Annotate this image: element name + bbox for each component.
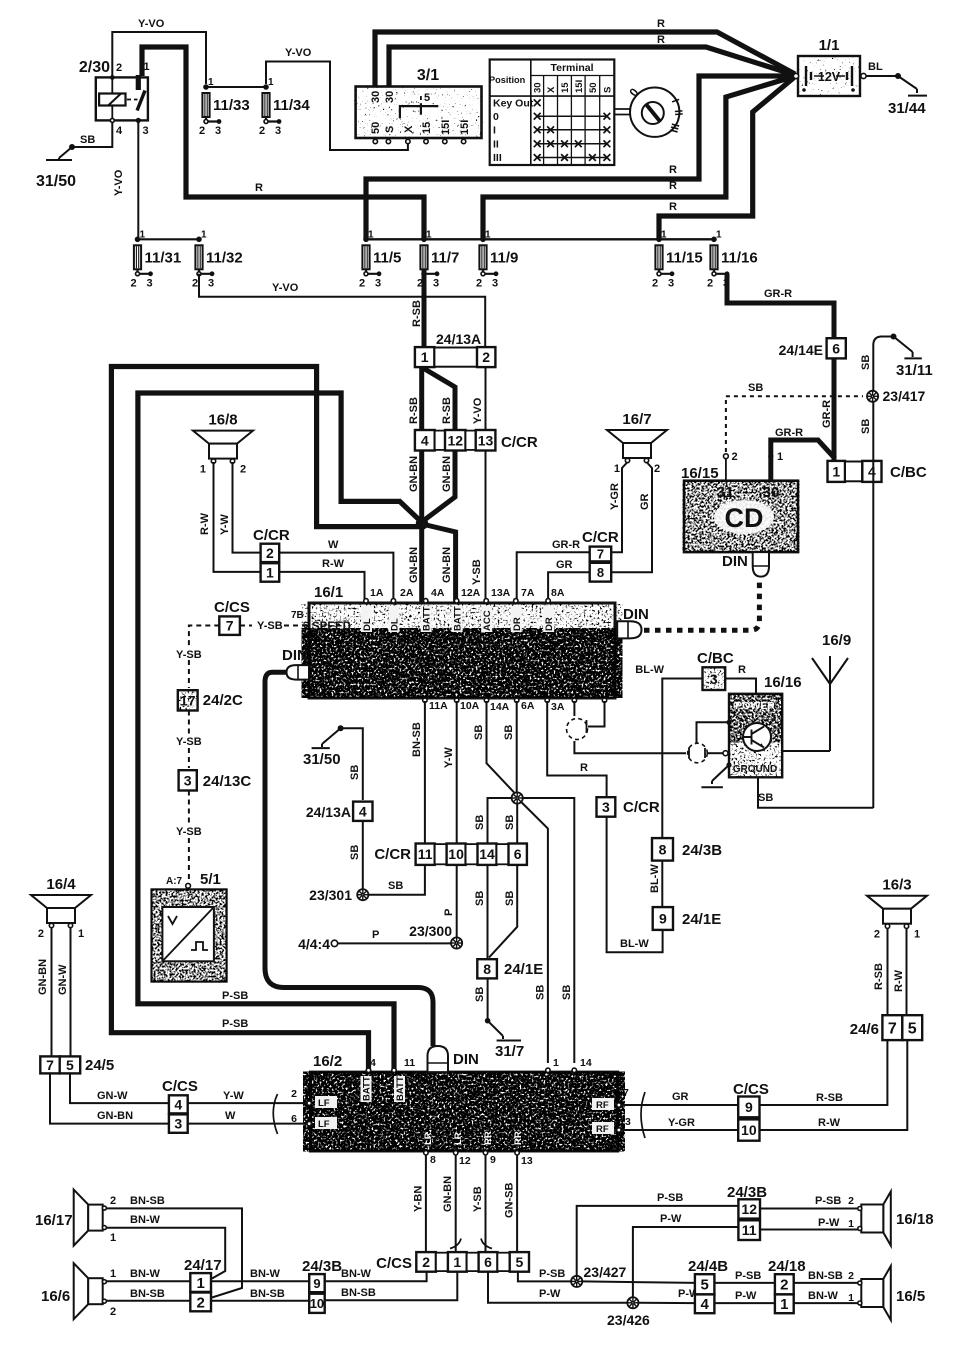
wire R 11/15 riser to battery bbox=[659, 78, 794, 240]
svg-text:4: 4 bbox=[174, 1096, 182, 1112]
svg-text:4: 4 bbox=[700, 1296, 709, 1313]
svg-text:2: 2 bbox=[652, 277, 658, 289]
wire Y-GR C/CR-7 to 16/7 pin1 bbox=[611, 462, 627, 552]
wire SB 16/1 14A to splice bbox=[487, 701, 517, 795]
svg-text:RF: RF bbox=[596, 1100, 609, 1111]
wire BL-W 24/3B-8 to 24/1E-9 bbox=[661, 861, 663, 907]
svg-text:C/CS: C/CS bbox=[376, 1255, 412, 1272]
wire R 3/1 pin30a to battery bbox=[375, 32, 795, 88]
wire SB dashed 23/417 to CD pin2 bbox=[725, 396, 727, 452]
wire R 16/1 3A to C/CR-3 bbox=[547, 701, 606, 796]
svg-text:2: 2 bbox=[259, 125, 265, 137]
svg-text:2/30: 2/30 bbox=[79, 59, 110, 76]
svg-text:2: 2 bbox=[848, 1270, 854, 1282]
svg-text:8: 8 bbox=[597, 565, 604, 580]
power stage 16/16 bbox=[726, 674, 801, 777]
svg-text:2: 2 bbox=[422, 1254, 430, 1270]
wire Y-VO relay pin2 to fuse 11/33 bbox=[112, 32, 206, 84]
svg-text:Y-SB: Y-SB bbox=[176, 826, 202, 838]
connector 24/18 2-1 bbox=[768, 1258, 806, 1313]
svg-text:R: R bbox=[669, 164, 677, 176]
fuse 11/31 bbox=[131, 229, 182, 289]
svg-text:R: R bbox=[657, 18, 665, 30]
svg-text:R-W: R-W bbox=[199, 512, 211, 535]
svg-text:Terminal: Terminal bbox=[551, 62, 594, 74]
wire R-SB 24/6-7 to C/CS-9 bbox=[760, 1040, 888, 1105]
svg-text:III: III bbox=[493, 152, 502, 164]
wire R-W C/CR-1 to 16/1 pin 1A bbox=[279, 572, 364, 599]
fuse 11/9 bbox=[476, 229, 518, 289]
wire stub 16/16 upper terminal bbox=[697, 722, 730, 744]
svg-text:Y-VO: Y-VO bbox=[272, 282, 299, 294]
svg-text:GN-BN: GN-BN bbox=[408, 456, 420, 492]
svg-text:1: 1 bbox=[914, 929, 920, 941]
svg-text:BN-W: BN-W bbox=[130, 1268, 161, 1280]
connector 24/13A bbox=[415, 331, 496, 367]
connector 24/3B 12-11 bbox=[727, 1184, 767, 1240]
wire SB splice to C/CR-14 bbox=[488, 798, 512, 844]
svg-text:8: 8 bbox=[483, 961, 491, 977]
wire bus 11/5 to 11/16 bbox=[366, 238, 714, 240]
svg-text:2: 2 bbox=[192, 277, 198, 289]
wire GN-BN C/CR-12 to junction bbox=[423, 451, 455, 522]
wire Y-BN 16/2 pin8 to C/CS-2 bbox=[425, 1155, 427, 1253]
svg-text:2: 2 bbox=[110, 1306, 116, 1318]
svg-text:9: 9 bbox=[659, 911, 667, 927]
speaker 16/17 bbox=[35, 1190, 116, 1246]
svg-text:GN-W: GN-W bbox=[97, 1090, 128, 1102]
speaker 16/18 bbox=[858, 1192, 934, 1246]
svg-text:2: 2 bbox=[110, 1195, 116, 1207]
svg-text:BN-W: BN-W bbox=[130, 1214, 161, 1226]
svg-text:2: 2 bbox=[199, 125, 205, 137]
svg-text:Y-BN: Y-BN bbox=[413, 1186, 425, 1212]
ignition switch 3/1 bbox=[356, 67, 482, 144]
svg-text:1: 1 bbox=[208, 77, 214, 88]
wire SB ground 31/11 column through 23/417 and C/BC-4 bbox=[873, 337, 891, 809]
svg-text:16/16: 16/16 bbox=[764, 674, 802, 691]
svg-text:SB: SB bbox=[561, 985, 573, 1000]
svg-text:5: 5 bbox=[700, 1277, 708, 1294]
wire DIN cable 16/1 to 16/2 bbox=[265, 672, 433, 1046]
fuse 11/7 bbox=[417, 229, 459, 289]
svg-text:15: 15 bbox=[560, 82, 571, 93]
svg-text:Y-VO: Y-VO bbox=[285, 47, 312, 59]
svg-text:11A: 11A bbox=[429, 700, 448, 712]
connector C/CR 3 bbox=[597, 797, 660, 817]
svg-text:24/5: 24/5 bbox=[85, 1057, 114, 1074]
wire P-SB 24/4B-5 to 24/18-2 bbox=[714, 1282, 775, 1284]
svg-text:1: 1 bbox=[266, 564, 274, 580]
svg-text:6: 6 bbox=[514, 846, 522, 862]
wire Y-W C/CS-4 to 16/2 pin2 bbox=[188, 1102, 307, 1104]
svg-text:GR-R: GR-R bbox=[775, 427, 803, 439]
svg-text:5: 5 bbox=[424, 92, 430, 104]
svg-text:1: 1 bbox=[201, 229, 207, 240]
svg-text:24/6: 24/6 bbox=[850, 1021, 879, 1038]
DIN connector 16/2 bbox=[428, 1046, 479, 1072]
DIN connector CD 16/15 bbox=[722, 552, 769, 577]
svg-text:10: 10 bbox=[310, 1296, 324, 1311]
connector C/CS 7 bbox=[214, 599, 250, 635]
svg-text:3: 3 bbox=[492, 277, 498, 289]
svg-text:13: 13 bbox=[521, 1155, 533, 1167]
svg-text:RR: RR bbox=[513, 1131, 524, 1145]
svg-text:15I: 15I bbox=[459, 120, 471, 135]
svg-text:P-SB: P-SB bbox=[222, 1018, 248, 1030]
svg-text:7: 7 bbox=[597, 547, 604, 562]
splice 23/300 bbox=[451, 937, 462, 948]
svg-text:SB: SB bbox=[474, 891, 486, 906]
svg-text:11/34: 11/34 bbox=[273, 97, 310, 114]
wire Y-GR 16/2 pin3 to C/CS-10 bbox=[621, 1129, 738, 1131]
svg-text:6: 6 bbox=[303, 620, 308, 630]
svg-text:BN-W: BN-W bbox=[250, 1268, 281, 1280]
ground stub 16/16 bbox=[701, 765, 729, 787]
svg-text:LF: LF bbox=[318, 1098, 330, 1109]
svg-text:Key Out: Key Out bbox=[493, 98, 534, 110]
wire R-SB 16/3 pin2 to 24/6-7 bbox=[887, 929, 889, 1015]
svg-text:R: R bbox=[669, 180, 677, 192]
svg-text:Y-W: Y-W bbox=[219, 514, 231, 535]
svg-text:6A: 6A bbox=[521, 700, 535, 712]
connector C/CR 11-10-14-6 bbox=[374, 844, 527, 865]
svg-text:4: 4 bbox=[868, 463, 876, 479]
svg-text:SB: SB bbox=[535, 985, 547, 1000]
svg-text:11/16: 11/16 bbox=[721, 249, 758, 266]
svg-text:4/4:4: 4/4:4 bbox=[298, 936, 330, 952]
svg-text:BN-SB: BN-SB bbox=[250, 1288, 285, 1300]
svg-text:2: 2 bbox=[266, 545, 274, 561]
svg-text:11/32: 11/32 bbox=[206, 249, 243, 266]
svg-text:2A: 2A bbox=[400, 587, 414, 599]
DIN connector 16/1 left bbox=[282, 647, 309, 680]
svg-text:31: 31 bbox=[717, 484, 734, 501]
svg-text:3: 3 bbox=[143, 125, 149, 137]
connector C/CR 7-8 bbox=[582, 529, 619, 582]
svg-text:30: 30 bbox=[533, 82, 544, 93]
svg-text:16/5: 16/5 bbox=[896, 1288, 925, 1305]
svg-text:2: 2 bbox=[359, 277, 365, 289]
connector 24/14E 6 bbox=[779, 338, 846, 358]
wire BN-SB 24/3B-10 to C/CS-1 bbox=[325, 1272, 458, 1301]
wire GN-BN C/CR-4 to junction bbox=[419, 451, 424, 605]
svg-text:Y-SB: Y-SB bbox=[257, 620, 283, 632]
wire Y-VO 11/32 to 24/13A pin2 bbox=[199, 274, 485, 348]
wire W C/CS-3 to 16/2 pin6 bbox=[188, 1123, 307, 1125]
svg-text:15I: 15I bbox=[574, 80, 585, 93]
wire SB splice to 16/2 pin1 bbox=[521, 802, 548, 1063]
svg-text:Y-SB: Y-SB bbox=[471, 559, 483, 585]
svg-text:BL-W: BL-W bbox=[635, 664, 664, 676]
svg-text:R-W: R-W bbox=[818, 1117, 841, 1129]
svg-text:3: 3 bbox=[208, 277, 214, 289]
svg-text:BN-SB: BN-SB bbox=[411, 722, 423, 757]
svg-text:24/4B: 24/4B bbox=[688, 1258, 728, 1275]
node SB splice bbox=[512, 792, 523, 803]
svg-text:30: 30 bbox=[763, 484, 780, 501]
svg-text:GR-R: GR-R bbox=[764, 288, 792, 300]
wire BN-SB 16/6 pin2 to 24/17-2 bbox=[107, 1300, 191, 1302]
connector C/CS 4-3 bbox=[162, 1078, 198, 1133]
connector 24/17 1-2 bbox=[184, 1257, 222, 1311]
svg-text:W: W bbox=[225, 1110, 236, 1122]
ground 31/50 top bbox=[36, 144, 76, 190]
svg-text:14: 14 bbox=[479, 846, 495, 862]
svg-text:SB: SB bbox=[80, 134, 95, 146]
svg-text:23/417: 23/417 bbox=[883, 388, 926, 404]
wire SB 16/1 6A to splice bbox=[516, 701, 518, 793]
wire bus fuse row pins 1 bbox=[138, 238, 200, 240]
svg-text:24/13A: 24/13A bbox=[306, 804, 351, 820]
svg-text:R-SB: R-SB bbox=[411, 300, 423, 327]
svg-text:24/1E: 24/1E bbox=[504, 961, 543, 978]
svg-text:7B: 7B bbox=[291, 610, 304, 621]
svg-text:1: 1 bbox=[200, 464, 206, 476]
svg-text:16/18: 16/18 bbox=[896, 1211, 934, 1228]
svg-text:24/3B: 24/3B bbox=[302, 1258, 342, 1275]
svg-text:C/CR: C/CR bbox=[253, 527, 290, 544]
svg-text:DIN: DIN bbox=[282, 647, 308, 664]
svg-text:SB: SB bbox=[474, 815, 486, 830]
wire GR-R 16/1 7A to C/CR-7 bbox=[517, 552, 590, 599]
wire SB 16/16 to right column bbox=[758, 777, 873, 807]
wire Y-W 16/1 10A to 23/300 bbox=[456, 701, 458, 938]
svg-text:24/3B: 24/3B bbox=[682, 842, 722, 859]
svg-text:1: 1 bbox=[777, 451, 783, 463]
svg-text:R: R bbox=[669, 201, 677, 213]
connector 24/1E 8 bbox=[477, 959, 543, 978]
svg-text:SB: SB bbox=[473, 725, 485, 740]
svg-text:LR: LR bbox=[453, 1132, 464, 1145]
svg-text:C/CS: C/CS bbox=[162, 1078, 198, 1095]
svg-text:X: X bbox=[546, 86, 557, 93]
svg-text:R-W: R-W bbox=[893, 969, 905, 992]
svg-text:BATT: BATT bbox=[395, 1076, 406, 1101]
svg-text:5: 5 bbox=[908, 1020, 917, 1037]
svg-text:GN-BN: GN-BN bbox=[441, 547, 453, 583]
wire Y-SB dashed 24/2C to 24/13C bbox=[188, 711, 190, 735]
wire BN-W 24/18-1 to 16/5 pin1 bbox=[794, 1302, 858, 1304]
svg-text:11/5: 11/5 bbox=[373, 249, 401, 266]
svg-text:BN-SB: BN-SB bbox=[341, 1287, 376, 1299]
svg-text:BATT: BATT bbox=[362, 1076, 373, 1101]
svg-text:SB: SB bbox=[504, 815, 516, 830]
antenna 16/9 bbox=[812, 632, 851, 751]
wire GN-SB 16/2 pin13 to C/CS-5 bbox=[516, 1155, 518, 1253]
wire SB splice through C/CR-6 bbox=[516, 804, 518, 844]
svg-text:1: 1 bbox=[368, 229, 374, 240]
svg-text:P-W: P-W bbox=[660, 1213, 682, 1225]
relay 2/30 bbox=[79, 59, 150, 137]
wire R-W 16/3 pin1 to 24/6-5 bbox=[906, 929, 908, 1015]
svg-text:SB: SB bbox=[388, 880, 403, 892]
svg-text:12: 12 bbox=[741, 1201, 757, 1217]
svg-text:2: 2 bbox=[131, 277, 137, 289]
svg-text:P: P bbox=[372, 929, 379, 941]
svg-text:CD: CD bbox=[725, 503, 764, 533]
wire P-W 23/426 to 24/4B-4 bbox=[639, 1302, 695, 1304]
svg-text:16/2: 16/2 bbox=[313, 1053, 342, 1070]
svg-text:4A: 4A bbox=[431, 587, 445, 599]
svg-text:BL-W: BL-W bbox=[649, 864, 661, 893]
svg-text:1: 1 bbox=[78, 928, 84, 940]
svg-text:BL-W: BL-W bbox=[620, 938, 649, 950]
svg-text:Y-SB: Y-SB bbox=[176, 736, 202, 748]
svg-text:RR: RR bbox=[483, 1131, 494, 1145]
svg-text:DR: DR bbox=[512, 617, 523, 631]
svg-text:C/CR: C/CR bbox=[623, 799, 660, 816]
wire Y-SB dashed C/CS-7 to 24/2C bbox=[189, 626, 219, 649]
svg-text:1: 1 bbox=[110, 1268, 116, 1280]
svg-text:7: 7 bbox=[888, 1020, 897, 1037]
svg-text:1: 1 bbox=[110, 1232, 116, 1244]
svg-text:0: 0 bbox=[493, 111, 499, 123]
battery 1/1 bbox=[793, 37, 866, 96]
svg-text:12: 12 bbox=[447, 432, 463, 448]
svg-text:Y-GR: Y-GR bbox=[668, 1117, 695, 1129]
svg-text:7A: 7A bbox=[521, 587, 535, 599]
svg-text:11: 11 bbox=[404, 1057, 415, 1069]
svg-text:GR: GR bbox=[672, 1091, 689, 1103]
svg-text:12A: 12A bbox=[461, 587, 481, 599]
svg-text:GN-SB: GN-SB bbox=[504, 1183, 516, 1219]
svg-text:16/1: 16/1 bbox=[314, 584, 343, 601]
svg-text:DR: DR bbox=[544, 617, 555, 631]
svg-text:1: 1 bbox=[485, 229, 491, 240]
svg-text:16/17: 16/17 bbox=[35, 1212, 73, 1229]
svg-text:DIN: DIN bbox=[722, 553, 748, 570]
wire R 11/9 riser to battery bbox=[483, 77, 794, 240]
svg-text:GN-BN: GN-BN bbox=[442, 1176, 454, 1212]
svg-text:1: 1 bbox=[553, 1057, 559, 1069]
svg-text:3/1: 3/1 bbox=[417, 67, 439, 84]
wire R 3/1 pin30b to battery bbox=[389, 47, 795, 88]
svg-text:50: 50 bbox=[588, 82, 599, 93]
svg-text:9: 9 bbox=[313, 1276, 320, 1291]
DIN connector 16/1 right bbox=[617, 606, 649, 638]
svg-text:1: 1 bbox=[832, 463, 840, 479]
svg-text:1: 1 bbox=[140, 229, 146, 240]
svg-text:11: 11 bbox=[418, 846, 433, 862]
svg-text:SB: SB bbox=[860, 419, 872, 434]
svg-text:3: 3 bbox=[275, 125, 281, 137]
wire GR 16/1 8A to C/CR-8 bbox=[548, 572, 590, 599]
speaker 16/4 bbox=[31, 876, 91, 940]
svg-text:24/13A: 24/13A bbox=[436, 331, 481, 347]
fuse 11/15 bbox=[652, 229, 703, 289]
svg-text:4: 4 bbox=[421, 432, 429, 448]
connector 24/13A 4 bbox=[306, 802, 373, 821]
splice 23/417 bbox=[867, 391, 878, 402]
wire Y-SB dashed 24/13C to 5/1 bbox=[188, 791, 190, 825]
connector 24/5 7-5 bbox=[40, 1056, 114, 1074]
svg-text:LF: LF bbox=[318, 1119, 330, 1130]
svg-text:SB: SB bbox=[748, 382, 763, 394]
svg-text:2: 2 bbox=[291, 1088, 297, 1100]
svg-text:15: 15 bbox=[421, 122, 433, 134]
svg-text:23/427: 23/427 bbox=[584, 1264, 627, 1280]
svg-text:14: 14 bbox=[580, 1057, 592, 1069]
svg-text:4: 4 bbox=[116, 125, 123, 137]
svg-text:24/13C: 24/13C bbox=[203, 773, 252, 790]
svg-text:BN-W: BN-W bbox=[341, 1268, 372, 1280]
svg-text:BN-SB: BN-SB bbox=[130, 1288, 165, 1300]
wire P-W 23/426 to 24/3B-11 bbox=[633, 1227, 739, 1297]
wire R-SB 24/13A-1 to C/CR-4 bbox=[419, 368, 424, 431]
svg-text:1: 1 bbox=[196, 1275, 204, 1292]
svg-text:10: 10 bbox=[448, 846, 464, 862]
wire link table to key bbox=[614, 109, 630, 115]
ground 31/7 bbox=[485, 1018, 524, 1060]
svg-text:R: R bbox=[255, 182, 263, 194]
svg-text:P-W: P-W bbox=[539, 1288, 561, 1300]
speaker 16/7 bbox=[607, 411, 667, 475]
speaker 16/5 bbox=[858, 1266, 925, 1320]
svg-text:5: 5 bbox=[515, 1254, 523, 1270]
wire BN-SB 24/17-2 to 24/3B-10 bbox=[211, 1300, 309, 1302]
svg-text:3: 3 bbox=[710, 671, 718, 687]
wire Y-SB 16/2 pin9 to C/CS-6 bbox=[485, 1155, 487, 1253]
svg-text:4: 4 bbox=[359, 803, 367, 819]
svg-text:17: 17 bbox=[180, 693, 196, 709]
CD player 16/15 bbox=[681, 465, 798, 552]
wire GR-R 24/14E to C/BC-1 bbox=[832, 358, 837, 460]
svg-text:S: S bbox=[602, 87, 613, 93]
twisted pair marks above bottom C/CS bbox=[450, 1239, 461, 1249]
wire R relay pin1 loop bbox=[142, 47, 424, 239]
svg-text:7: 7 bbox=[623, 1087, 629, 1099]
wire GR 16/2 pin7 to C/CS-9 bbox=[621, 1104, 738, 1106]
svg-text:1: 1 bbox=[614, 463, 620, 475]
svg-text:8: 8 bbox=[659, 841, 667, 857]
svg-text:P-SB: P-SB bbox=[222, 990, 248, 1002]
wire R-W 24/6-5 to C/CS-10 bbox=[760, 1040, 908, 1130]
svg-text:2: 2 bbox=[732, 451, 738, 463]
amplifier unit 16/2 bbox=[291, 1053, 631, 1167]
svg-text:P-W: P-W bbox=[735, 1290, 757, 1302]
wire SB 24/13A-4 to 23/301 bbox=[362, 821, 364, 889]
svg-text:P-SB: P-SB bbox=[735, 1270, 761, 1282]
svg-text:6: 6 bbox=[832, 340, 840, 356]
wire GN-W 24/5-5 to C/CS-4 bbox=[70, 1073, 169, 1103]
svg-text:GR: GR bbox=[556, 559, 573, 571]
speaker 16/8 bbox=[193, 412, 253, 476]
svg-text:11/9: 11/9 bbox=[490, 249, 518, 266]
svg-text:30: 30 bbox=[384, 91, 396, 103]
svg-text:24/17: 24/17 bbox=[184, 1257, 222, 1274]
svg-text:30: 30 bbox=[370, 91, 382, 103]
svg-text:1: 1 bbox=[421, 349, 429, 365]
svg-text:24/14E: 24/14E bbox=[779, 342, 823, 358]
svg-text:16/9: 16/9 bbox=[822, 632, 851, 649]
fuse 11/34 bbox=[259, 77, 310, 137]
wire P-SB loop 16/2 pin4 outer bbox=[111, 367, 424, 1072]
svg-text:10: 10 bbox=[741, 1122, 757, 1138]
svg-text:R-SB: R-SB bbox=[408, 397, 420, 424]
svg-text:13A: 13A bbox=[491, 587, 511, 599]
svg-text:C/BC: C/BC bbox=[697, 650, 734, 667]
svg-text:R-W: R-W bbox=[322, 558, 345, 570]
wire BL battery to 31/44 bbox=[866, 75, 896, 77]
svg-text:3: 3 bbox=[625, 1116, 631, 1128]
wire link 11/33 to 11/34 bbox=[206, 86, 266, 88]
wire Y-SB dashed C/CS-7 to 16/1 pin6 bbox=[240, 625, 252, 627]
connector C/BC 3 bbox=[697, 650, 734, 690]
svg-text:16/7: 16/7 bbox=[622, 411, 651, 428]
svg-text:Y-SB: Y-SB bbox=[472, 1186, 484, 1212]
svg-text:GR-R: GR-R bbox=[552, 539, 580, 551]
